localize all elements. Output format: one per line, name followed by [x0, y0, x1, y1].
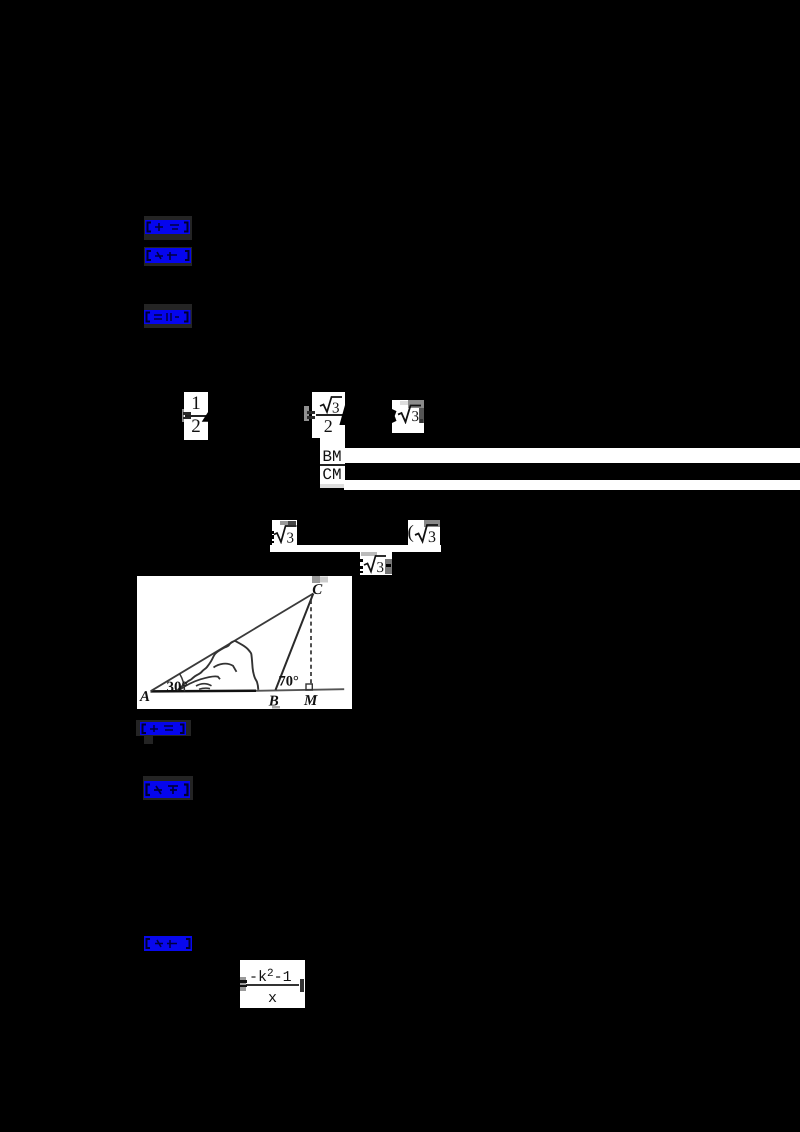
svg-text:3: 3 [411, 409, 419, 424]
svg-text:3: 3 [428, 529, 436, 545]
svg-text:B: B [268, 694, 279, 709]
svg-text:A: A [139, 689, 150, 705]
svg-text:3: 3 [286, 531, 294, 545]
svg-text:C: C [312, 582, 323, 598]
svg-text:30°: 30° [167, 679, 188, 695]
svg-text:70°: 70° [279, 673, 300, 689]
svg-text:M: M [303, 693, 318, 709]
svg-text:3: 3 [376, 560, 384, 575]
svg-text:3: 3 [332, 401, 340, 416]
